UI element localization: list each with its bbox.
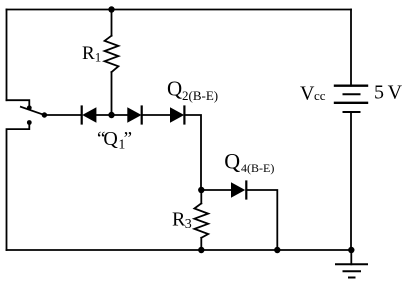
- diode Q4(B-E) (pointing right): [231, 182, 246, 199]
- svg-text:V: V: [300, 82, 315, 104]
- diode D2 (right half of "Q1", pointing right): [127, 107, 141, 124]
- switch SW (SPDT) upper throw contact: [27, 105, 32, 110]
- wire R3 top lead: [200, 190, 202, 203]
- node Q2/R3/Q4 junction: [198, 187, 204, 193]
- svg-text:1: 1: [95, 50, 102, 65]
- wire from lower switch throw: [7, 125, 30, 251]
- wire bottom rail: [7, 249, 352, 251]
- node Q4 branch bottom junction: [274, 247, 280, 253]
- wire top rail: [7, 9, 352, 11]
- node top junction of R1: [108, 6, 114, 12]
- switch SW blade: [21, 107, 45, 115]
- svg-text:3: 3: [185, 217, 192, 232]
- svg-text:4(B-E): 4(B-E): [241, 161, 274, 175]
- label R1: [82, 43, 101, 65]
- wire Q4 to corner and down to bottom rail: [246, 190, 277, 250]
- wire to upper switch throw: [7, 100, 30, 105]
- label 5 V: [374, 82, 403, 104]
- ground symbol: [336, 250, 367, 278]
- label Vcc: [300, 82, 326, 104]
- wire R1 top lead: [111, 10, 113, 36]
- diode D1 (left half of "Q1", pointing left): [82, 107, 97, 124]
- battery Vcc plate 2 (short): [344, 93, 360, 95]
- svg-text:2(B-E): 2(B-E): [182, 88, 218, 103]
- node R3 bottom junction: [198, 247, 204, 253]
- resistor R3: [194, 203, 208, 237]
- battery Vcc plate 3 (long): [335, 102, 367, 104]
- wire junction to Q4 diode: [201, 189, 231, 191]
- svg-text:5 V: 5 V: [374, 82, 403, 104]
- svg-text:cc: cc: [314, 88, 326, 103]
- diode Q2(B-E) (pointing right): [170, 107, 184, 124]
- svg-text:Q: Q: [167, 77, 182, 101]
- node battery/ground junction: [348, 247, 354, 253]
- svg-text:R: R: [82, 43, 95, 64]
- wire Q2 to corner and down: [184, 115, 201, 190]
- ground bar 1: [336, 263, 367, 265]
- svg-text:”: ”: [124, 128, 132, 149]
- wire D2 to Q2 diode: [142, 114, 170, 116]
- wire pole to diode D1: [44, 114, 81, 116]
- wire D1 to junction: [96, 114, 127, 116]
- svg-text:Q: Q: [224, 148, 240, 173]
- switch SW pole contact: [42, 112, 47, 117]
- wire R3 bottom lead: [200, 238, 202, 250]
- battery Vcc plate 1 (long): [335, 84, 367, 86]
- label Q2(B-E): [167, 77, 218, 104]
- wire left upper vertical: [6, 10, 8, 101]
- resistor R1: [105, 36, 119, 72]
- label Q4(B-E): [224, 148, 274, 175]
- battery Vcc plate 4 (short): [344, 111, 360, 113]
- wire ground lead: [350, 250, 352, 264]
- label R3: [172, 208, 192, 232]
- ground bar 2: [344, 270, 361, 272]
- svg-text:Q: Q: [103, 128, 118, 150]
- ground bar 3: [349, 277, 355, 279]
- wire right vertical (top rail to battery): [350, 10, 352, 86]
- wire R1 bottom lead: [111, 72, 113, 115]
- node R1/diodes junction: [108, 112, 114, 118]
- wire battery bottom lead: [350, 112, 352, 250]
- switch SW lower throw contact: [27, 120, 32, 125]
- label "Q1": [97, 128, 132, 152]
